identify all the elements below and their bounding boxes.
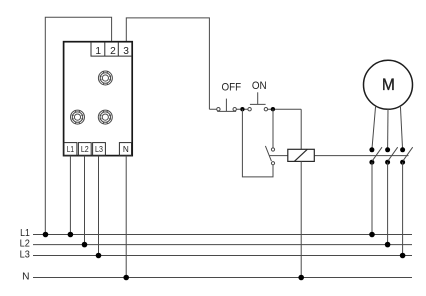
wire: motor lead left: [372, 106, 376, 150]
wire: contact 2 down to L2 bus: [387, 162, 389, 244]
auxiliary contact K1 (NO, self-hold): [265, 109, 274, 165]
node: junction after ON: [271, 107, 275, 111]
svg-text:L2: L2: [20, 239, 30, 250]
node: relay N tap: [123, 275, 129, 281]
node: relay L2 tap: [82, 242, 88, 248]
wire: coil bottom down to N bus: [300, 161, 302, 277]
svg-text:L2: L2: [81, 145, 89, 154]
pushbutton S2 ON (NO): [248, 92, 268, 111]
pushbutton S1 OFF (NC): [217, 99, 237, 112]
bottom terminal box L1: [64, 143, 77, 156]
wire: terminal 3 up, over and down to OFF button: [126, 18, 209, 109]
svg-text:L1: L1: [20, 228, 30, 239]
node: relay L1 tap: [68, 232, 74, 238]
svg-text:2: 2: [110, 46, 116, 57]
node: contact3 L3 tap: [400, 253, 406, 259]
svg-text:N: N: [123, 145, 129, 154]
node: feed tap on L1: [43, 232, 49, 238]
wire: motor lead middle: [387, 109, 389, 150]
node: relay L3 tap: [96, 253, 102, 259]
main contact K1-2: [385, 147, 398, 165]
wire: contact 1 down to L1 bus: [371, 162, 373, 234]
wire: motor lead right: [400, 106, 402, 150]
svg-text:N: N: [22, 272, 29, 283]
control line wire: OFF corner to coil drop: [209, 109, 301, 149]
screw/test button lower-right: [98, 110, 112, 124]
wire: holding-circuit branch (down, across, up to aux contact): [242, 109, 273, 177]
svg-text:L3: L3: [20, 250, 30, 261]
phase monitoring relay U1 body: [64, 42, 133, 156]
svg-text:3: 3: [123, 46, 129, 57]
screw/test button lower-left: [71, 110, 85, 124]
bottom terminal box N: [119, 143, 131, 156]
svg-text:OFF: OFF: [222, 82, 242, 94]
svg-text:ON: ON: [252, 80, 267, 92]
top terminal block 1 2 3 outline: [91, 42, 132, 56]
svg-text:L1: L1: [67, 145, 75, 154]
node: contact2 L2 tap: [385, 242, 391, 248]
mechanical linkage line from aux contact through coil to main contacts: [269, 155, 409, 157]
node: contact1 L1 tap: [369, 232, 375, 238]
node: junction after OFF: [240, 107, 244, 111]
wire: relay terminal N down to N bus: [125, 156, 127, 278]
wire: contact 3 down to L3 bus: [402, 162, 404, 255]
L1 bus line: [33, 234, 412, 236]
svg-text:L3: L3: [95, 145, 103, 154]
bottom terminal box L2: [78, 143, 91, 156]
svg-text:1: 1: [95, 46, 101, 57]
screw/test button top: [98, 71, 112, 85]
L3 bus line: [33, 255, 412, 257]
node: coil N tap: [298, 275, 304, 281]
L2 bus line: [33, 244, 412, 246]
wire: L1 bus up and over to terminal 2: [45, 17, 111, 234]
main contact K1-3: [400, 147, 413, 165]
wire: relay terminal L3 down to L3 bus: [98, 156, 100, 256]
motor M1: [364, 60, 413, 109]
wire: relay terminal L2 down to L2 bus: [84, 156, 86, 245]
bottom terminal box L3: [93, 143, 106, 156]
N bus line: [33, 277, 412, 279]
wire: relay terminal L1 down to L1 bus: [69, 156, 71, 235]
contactor coil K1: [288, 149, 315, 161]
main contact K1-1: [369, 147, 382, 165]
svg-text:M: M: [382, 75, 395, 94]
